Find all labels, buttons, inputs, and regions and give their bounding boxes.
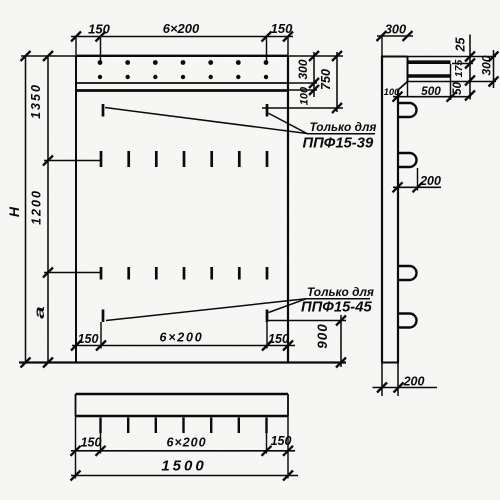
- 500 dim line: [393, 92, 472, 102]
- lifting hook 4: [398, 314, 417, 328]
- panel front view: right edge: [287, 56, 289, 363]
- dim text 300 side top: [385, 22, 406, 37]
- svg-text:6×200: 6×200: [159, 331, 203, 345]
- svg-text:100: 100: [384, 87, 401, 98]
- hook tick row 1 (PPF15-39 only): [103, 104, 267, 117]
- svg-text:1500: 1500: [161, 458, 206, 475]
- side view: left edge extensions: [381, 36, 383, 396]
- dim line 750: [332, 51, 342, 113]
- lifting hook 1: [398, 103, 417, 117]
- top band lower thick line: [76, 89, 288, 92]
- top dimension extension lines: [76, 37, 288, 65]
- side view: top edge: [381, 56, 408, 58]
- rebar dots row 1: [98, 60, 269, 65]
- bottom view: outline: [76, 394, 289, 416]
- side view: chamfer diagonal: [398, 82, 408, 91]
- dim text 900: [315, 323, 330, 349]
- svg-text:Только для: Только для: [310, 120, 377, 134]
- dim text 150 top-left: [88, 22, 110, 37]
- top band inner line: [76, 82, 288, 84]
- svg-text:1350: 1350: [29, 83, 43, 119]
- dim text 100 side: [384, 87, 401, 98]
- bottom view: hook ticks: [101, 418, 267, 434]
- side view: narrow right edge: [397, 90, 399, 396]
- svg-text:175: 175: [453, 60, 465, 78]
- dim line 300/100: [309, 51, 319, 97]
- svg-text:150: 150: [271, 434, 292, 448]
- leader lines to PPF15-39 note: [105, 108, 307, 134]
- dim text 500: [421, 84, 441, 98]
- svg-text:ППФ15-45: ППФ15-45: [301, 300, 372, 316]
- dim text 150 main bottom-right: [268, 332, 289, 346]
- dim text 50: [452, 82, 464, 95]
- svg-text:150: 150: [268, 332, 289, 346]
- side right stacked dim line: [465, 35, 475, 101]
- side far right dim line 300: [489, 50, 499, 88]
- svg-text:300: 300: [385, 22, 406, 37]
- svg-text:1200: 1200: [30, 189, 44, 225]
- svg-text:а: а: [31, 306, 47, 319]
- dim text 300: [296, 59, 310, 79]
- panel front view: top edge: [76, 55, 288, 57]
- svg-text:25: 25: [454, 37, 468, 53]
- dim text 200 bottom: [403, 375, 425, 389]
- svg-text:6×200: 6×200: [163, 21, 200, 36]
- dim text 150 main bottom-left: [78, 332, 99, 346]
- dim text 1500: [161, 458, 206, 475]
- leader lines to PPF15-45 note: [106, 299, 306, 321]
- top dimension slashes: [71, 32, 293, 42]
- side view: left edge: [381, 57, 383, 363]
- dim text 300 far right: [480, 55, 494, 75]
- bottom dim line 150/6x200/150: [71, 446, 296, 456]
- flange plate 2 (thick): [408, 74, 451, 77]
- dim text 750: [319, 69, 333, 90]
- bottom view extension lines: [76, 416, 289, 479]
- dim line 1500: [71, 471, 299, 481]
- side view: wide right edge: [407, 57, 409, 98]
- dim text 25: [454, 37, 468, 53]
- dim text 6x200 top: [163, 21, 200, 36]
- dim text 6x200 bottom: [166, 436, 206, 450]
- svg-text:150: 150: [271, 21, 293, 36]
- note text: Tolko dlya PPF15-45: [301, 285, 374, 316]
- hook tick row 3: [101, 267, 267, 280]
- note text: Tolko dlya PPF15-39: [303, 120, 377, 152]
- dim text 1200: [30, 189, 44, 225]
- panel front view: left edge: [75, 56, 77, 363]
- svg-text:500: 500: [421, 84, 441, 98]
- dim text 100: [299, 86, 311, 105]
- main view bottom dimension line: [71, 341, 295, 351]
- dim line 900: [336, 315, 346, 368]
- 200 bottom dim: [373, 383, 438, 393]
- lifting hook 3: [398, 266, 417, 280]
- 200 mid dim: [393, 168, 442, 192]
- dim text 1350: [29, 83, 43, 119]
- svg-text:6×200: 6×200: [166, 436, 206, 450]
- svg-text:Н: Н: [6, 206, 22, 217]
- dim text a: [31, 306, 47, 319]
- flange top extension line: [408, 56, 497, 58]
- dim text 200 mid: [419, 174, 441, 188]
- svg-text:200: 200: [403, 375, 425, 389]
- H dimension line: [21, 51, 31, 368]
- right extension lines top: [262, 56, 343, 108]
- hook tick row 4 (PPF15-45 only): [103, 310, 267, 323]
- flange end extension vertical: [450, 64, 452, 100]
- left extension lines: [21, 56, 101, 273]
- svg-text:150: 150: [81, 436, 102, 450]
- 900 dim extension: [266, 320, 346, 322]
- dim text H: [6, 206, 22, 217]
- flange lower line: [408, 81, 497, 83]
- hook tick row 2: [101, 151, 267, 167]
- rebar dots row 2: [98, 75, 268, 79]
- svg-text:900: 900: [315, 323, 330, 349]
- dim text 175: [453, 60, 465, 78]
- panel front view: bottom edge with extensions: [19, 361, 346, 363]
- dim text 150 bottom-right: [271, 434, 292, 448]
- svg-text:200: 200: [419, 174, 441, 188]
- left inner dimension line: [43, 51, 53, 368]
- svg-text:Только для: Только для: [307, 285, 374, 299]
- dim text 150 bottom-left: [81, 436, 102, 450]
- side view: bottom division line: [381, 362, 399, 364]
- svg-text:150: 150: [88, 22, 110, 37]
- svg-text:300: 300: [296, 59, 310, 79]
- dim text 6x200 main bottom: [159, 331, 203, 345]
- row4 tick extension lines down: [101, 322, 267, 349]
- svg-text:300: 300: [480, 55, 494, 75]
- svg-text:750: 750: [319, 69, 333, 90]
- dim text 150 top-right: [271, 21, 293, 36]
- svg-text:150: 150: [78, 332, 99, 346]
- top dimension line: [71, 36, 293, 38]
- side top dim line 300: [377, 31, 414, 41]
- lifting hook 2: [398, 153, 417, 167]
- flange plate 1 (thick): [408, 60, 451, 64]
- svg-text:ППФ15-39: ППФ15-39: [303, 136, 374, 152]
- svg-text:100: 100: [299, 86, 311, 105]
- extension for plate bottom: [452, 63, 473, 65]
